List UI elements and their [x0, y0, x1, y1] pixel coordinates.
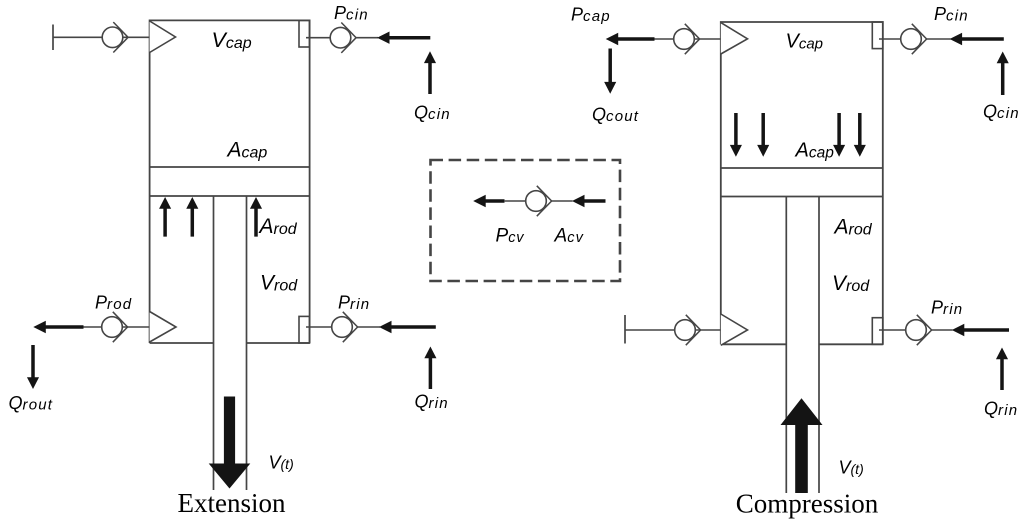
- svg-text:V(t): V(t): [269, 453, 294, 473]
- wire arrow to check valve (middle): [504, 200, 526, 202]
- svg-text:Extension: Extension: [178, 488, 286, 518]
- right cylinder bottom wall right segment: [819, 343, 883, 345]
- check valve Pcap: [674, 24, 700, 54]
- wire tick to check valve: [53, 36, 103, 38]
- right cylinder bottom-right port: [872, 318, 883, 345]
- svg-text:Qrout: Qrout: [9, 393, 54, 414]
- svg-text:Vrod: Vrod: [260, 272, 298, 295]
- right cylinder top-right port: [872, 22, 883, 49]
- right cylinder top-left inlet triangle: [721, 23, 748, 54]
- right bottom terminal tick: [624, 315, 626, 344]
- Qcin flow arrow (right): [997, 52, 1009, 96]
- svg-text:Acap: Acap: [226, 139, 268, 162]
- svg-text:Pcv: Pcv: [496, 226, 525, 247]
- flow arrow into Prin (right): [952, 324, 1009, 336]
- left rod right line: [246, 196, 248, 490]
- flow arrow into check valve (middle): [572, 195, 606, 207]
- svg-text:Prod: Prod: [95, 293, 132, 314]
- right piston bottom line: [721, 196, 883, 198]
- svg-text:Qcin: Qcin: [414, 103, 451, 124]
- rod-side pressure arrow 2 (left cyl): [186, 197, 198, 237]
- right piston top line: [721, 167, 883, 169]
- check valve Prod: [102, 312, 128, 342]
- check valve Prin left cylinder: [332, 312, 358, 342]
- right cylinder body walls: [721, 22, 883, 344]
- Qrin flow arrow (left): [424, 347, 436, 390]
- wire port to check valve Prin(R): [879, 329, 906, 331]
- left cylinder top-right port: [299, 20, 310, 47]
- right cylinder bottom wall left segment: [721, 343, 787, 345]
- svg-text:Pcap: Pcap: [571, 5, 611, 26]
- Qrin flow arrow (right): [996, 348, 1008, 391]
- dashed box: [431, 160, 621, 281]
- wire tick to check valve (right bottom): [625, 329, 675, 331]
- svg-text:Vrod: Vrod: [832, 272, 870, 295]
- svg-text:Qrin: Qrin: [415, 392, 449, 413]
- right rod left line: [785, 197, 787, 494]
- left piston top line: [150, 166, 310, 168]
- cap-side pressure arrow 2 (right cyl): [757, 113, 769, 157]
- cap-side pressure arrow 3 (right cyl): [833, 113, 845, 157]
- wire arrow to check valve Prod: [84, 326, 103, 328]
- rod-side pressure arrow 1 (left cyl): [159, 197, 171, 237]
- check valve CV (middle): [526, 186, 552, 216]
- flow arrow out of check valve (middle): [473, 195, 504, 207]
- wire check valve Prod to cylinder: [122, 326, 150, 328]
- svg-text:Qcout: Qcout: [592, 105, 639, 126]
- left cylinder bottom-right port: [299, 316, 310, 343]
- wire check valve Pcap to cylinder: [694, 38, 721, 40]
- left cylinder top-left inlet triangle: [150, 21, 176, 53]
- check valve Pcin left cylinder: [330, 23, 356, 53]
- svg-text:Prin: Prin: [338, 293, 370, 314]
- left cylinder body walls: [150, 20, 310, 343]
- left top terminal tick: [52, 25, 54, 51]
- wire arrow to check valve Pcap: [655, 38, 674, 40]
- flow arrow out of Prod: [33, 321, 83, 333]
- wire port to check valve Pcin(L): [306, 37, 331, 39]
- check valve Prin right cylinder: [906, 315, 932, 345]
- svg-text:Vcap: Vcap: [786, 31, 824, 53]
- left cylinder bottom-left inlet triangle: [150, 312, 176, 343]
- flow arrow into Pcin (right): [950, 33, 1004, 45]
- svg-text:Prin: Prin: [931, 298, 963, 319]
- check valve left-top-left: [102, 22, 128, 52]
- svg-text:V(t): V(t): [839, 458, 864, 478]
- flow arrow out of Pcap: [606, 33, 655, 45]
- flow arrow into Prin (left): [379, 321, 436, 333]
- check valve right-bottom-left: [675, 315, 701, 345]
- check valve Pcin right cylinder: [901, 24, 927, 54]
- svg-text:Compression: Compression: [736, 489, 879, 519]
- wire port to check valve Pcin(R): [879, 38, 901, 40]
- svg-text:Qrin: Qrin: [984, 399, 1018, 420]
- svg-text:Acap: Acap: [795, 140, 835, 162]
- Qrout flow arrow: [27, 345, 39, 389]
- wire check valve to cylinder (right bottom): [695, 329, 721, 331]
- rod-side pressure arrow 3 (left cyl): [250, 197, 262, 237]
- left piston bottom line: [150, 195, 310, 197]
- left cylinder bottom wall right segment: [247, 342, 310, 344]
- flow arrow into Pcin (left): [377, 32, 430, 44]
- Qcin flow arrow (left): [424, 51, 436, 94]
- velocity arrow V(t) downward (extension): [209, 397, 251, 489]
- svg-text:Pcin: Pcin: [334, 3, 369, 24]
- right rod right line: [818, 197, 820, 494]
- left cylinder bottom wall left segment: [150, 342, 214, 344]
- wire check valve to arrow: [356, 37, 378, 39]
- svg-text:Vcap: Vcap: [212, 28, 252, 52]
- velocity arrow V(t) upward (compression): [781, 398, 823, 493]
- svg-text:Arod: Arod: [258, 215, 298, 238]
- right cylinder bottom-left inlet triangle: [721, 314, 748, 345]
- left rod left line: [213, 196, 215, 490]
- wire port to check valve Prin(L): [306, 326, 332, 328]
- wire check valve to arrow: [358, 326, 381, 328]
- Qcout flow arrow: [604, 49, 616, 94]
- svg-text:Pcin: Pcin: [934, 4, 969, 25]
- svg-text:Acv: Acv: [554, 226, 585, 247]
- cap-side pressure arrow 1 (right cyl): [730, 113, 742, 157]
- wire check valve to cylinder: [123, 36, 150, 38]
- cap-side pressure arrow 4 (right cyl): [854, 113, 866, 157]
- svg-text:Arod: Arod: [833, 216, 873, 239]
- wire check valve to arrow: [932, 329, 953, 331]
- wire check valve to arrow: [927, 38, 951, 40]
- wire check valve to arrow (middle): [552, 200, 573, 202]
- svg-text:Qcin: Qcin: [983, 102, 1020, 123]
